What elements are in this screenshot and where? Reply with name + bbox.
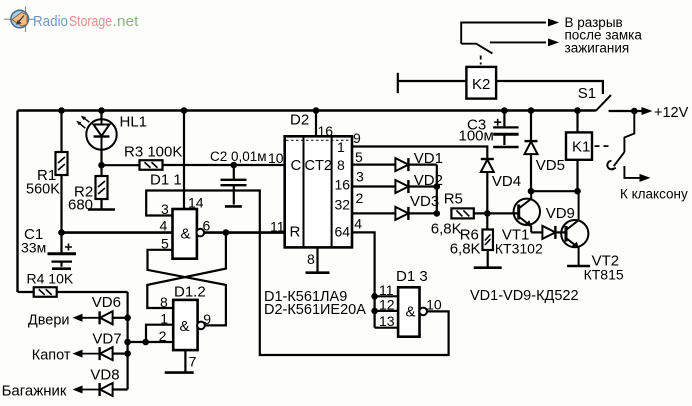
dashed link K1 to contact (595, 145, 612, 147)
arrow to ignition break 2 (548, 38, 559, 46)
junction rail R1 (58, 107, 65, 114)
svg-text:9: 9 (203, 311, 211, 327)
svg-text:C: C (291, 157, 302, 174)
svg-text:VD9: VD9 (546, 205, 575, 222)
svg-text:D2: D2 (290, 112, 309, 129)
svg-text:13: 13 (379, 313, 395, 329)
junction VD7 bus (124, 350, 131, 357)
svg-text:100м: 100м (459, 128, 494, 145)
svg-text:VD4: VD4 (492, 173, 521, 190)
svg-text:D1 1: D1 1 (150, 172, 182, 189)
wire K2 contact to ignition (490, 41, 546, 43)
junction D1.1 output cross-couple (223, 229, 230, 236)
junction rail D1.1 pin14 (181, 107, 188, 114)
wire VD5 to relay node (530, 154, 532, 191)
wire left supply bus (16, 111, 18, 293)
dashed link K2 to contact (480, 56, 482, 65)
wire VD8 to bus (113, 388, 128, 390)
relay K2 coil (466, 67, 496, 99)
contact blade of K2 (461, 44, 492, 54)
wire K2 left lead (398, 80, 467, 82)
diode VD6 (100, 311, 113, 324)
diode VD7 (100, 347, 113, 360)
wire rail to HL1 (100, 111, 102, 121)
capacitor C1 (48, 254, 77, 267)
svg-text:6: 6 (203, 218, 211, 234)
arrow to Двери (73, 314, 83, 322)
junction C1 node (58, 229, 65, 236)
svg-text:КТ815: КТ815 (584, 267, 624, 283)
junction HL1 R2 R3 (98, 162, 105, 169)
wire R3 to D2 C input (163, 164, 285, 166)
capacitor C3 (493, 111, 518, 146)
wire R2 to ground (100, 199, 102, 210)
svg-text:зажигания: зажигания (565, 40, 630, 55)
diode VD9 (542, 226, 555, 239)
wire base node to R6 (486, 213, 488, 229)
svg-text:VD6: VD6 (92, 294, 121, 311)
svg-text:S1: S1 (578, 85, 596, 102)
junction rail VD5 (528, 107, 535, 114)
wire K1 to relay node (576, 160, 578, 191)
svg-text:+12V: +12V (654, 105, 689, 121)
wire D2 pin 9 to VD4 (352, 147, 487, 160)
svg-text:HL1: HL1 (120, 114, 148, 131)
svg-text:33м: 33м (21, 240, 46, 256)
junction D1.3 pin 11 (371, 293, 378, 300)
svg-text:6,8K: 6,8K (450, 241, 481, 258)
wire stub D1.3 pin 12 (375, 310, 399, 312)
svg-text:8: 8 (307, 251, 315, 267)
wire rail to D2 pin 16 (315, 111, 317, 137)
relay K1 coil (566, 132, 592, 159)
wire VD1 to collect line (408, 164, 436, 166)
svg-text:11: 11 (379, 282, 394, 298)
wire diode collect line (436, 165, 438, 214)
svg-text:Storage: Storage (69, 13, 112, 30)
svg-text:&: & (180, 318, 190, 335)
svg-text:VD1: VD1 (414, 150, 443, 167)
diode VD3 (395, 207, 408, 220)
svg-text:CT2: CT2 (305, 158, 332, 174)
wire D2 pin 4 to D1.3 inputs (352, 232, 375, 327)
ground below C3 (493, 146, 518, 149)
wire rail to VD5 (530, 111, 532, 142)
svg-text:R4 10K: R4 10K (27, 271, 74, 287)
wire VT1 emitter to VD9 (531, 231, 542, 233)
ground below D2 (306, 271, 330, 274)
wire +12V rail left of S1 (18, 109, 596, 112)
wire D2 pin 8 to ground (316, 247, 318, 272)
junction D1.3 pin 12 (371, 308, 378, 315)
wire D1.2 pin 7 to ground (184, 350, 186, 373)
LED HL1 (76, 116, 116, 150)
wire R5 to base node (474, 212, 519, 214)
junction pins 1-2 of D1.2 (142, 339, 149, 346)
diode VD5 (525, 141, 538, 154)
svg-text:Капот: Капот (32, 348, 71, 364)
junction VD5 VT1 collector (528, 188, 535, 195)
svg-text:R5: R5 (444, 191, 463, 208)
wire VD7 to bus (113, 353, 128, 355)
svg-text:R: R (290, 224, 301, 241)
op gate D1.3 К561ЛА9 (398, 287, 419, 336)
wire relay node (531, 190, 579, 192)
ground below VT2 (567, 265, 590, 268)
svg-text:D2-К561ИЕ20А: D2-К561ИЕ20А (264, 302, 366, 318)
svg-text:Двери: Двери (28, 312, 70, 328)
counter D2 К561ИЕ20А box (285, 136, 352, 247)
svg-text:64: 64 (335, 224, 351, 240)
wire D1.1 pin3 loop to D1.3 output (146, 191, 448, 356)
junction C2 top (231, 162, 238, 169)
svg-text:4: 4 (354, 216, 362, 232)
wire VD6 to bus (113, 317, 128, 319)
diode VD1 (395, 158, 408, 171)
svg-text:10: 10 (268, 150, 284, 166)
junction rail C3 (501, 107, 508, 114)
junction VD2 collect (434, 183, 441, 190)
wire D1.2 pin 1 jumper (146, 325, 173, 342)
wire cross-couple D1.2 out to D1.1 pin 5 (148, 250, 226, 326)
svg-text:5: 5 (355, 149, 363, 165)
arrow to +12V (642, 107, 653, 115)
wire rail to D1.1 pin 14 (183, 111, 185, 210)
svg-text:16: 16 (335, 177, 351, 193)
svg-text:K2: K2 (472, 76, 490, 93)
svg-text:VD5: VD5 (536, 157, 565, 174)
capacitor C2 (221, 165, 247, 205)
resistor R1 (56, 152, 68, 175)
wire R6 to ground (487, 250, 489, 268)
svg-text:7: 7 (189, 354, 197, 370)
svg-text:8: 8 (160, 294, 168, 310)
svg-text:VD8: VD8 (90, 367, 119, 384)
svg-text:R3 100K: R3 100K (124, 144, 182, 161)
op gate D1.1 К561ЛА9 (173, 209, 197, 259)
wire VD4 to base node (486, 172, 488, 213)
svg-text:K1: K1 (572, 139, 590, 156)
svg-text:4: 4 (160, 218, 168, 234)
wire VD6 to arrow (77, 317, 100, 319)
ground below R6 (474, 266, 502, 269)
junction rail D2 pin16 (313, 107, 320, 114)
wire sensor bus to D1.2 pin 2 (128, 341, 174, 343)
svg-text:8: 8 (337, 157, 345, 173)
svg-text:1: 1 (337, 139, 345, 155)
svg-text:VD3: VD3 (410, 193, 439, 210)
resistor R6 (482, 230, 493, 251)
junction VD6 bus (124, 315, 131, 322)
junction rail K1 (574, 107, 581, 114)
svg-text:Багажник: Багажник (2, 383, 67, 400)
wire VD2 to collect line (408, 185, 436, 187)
contact of K1 to horn (607, 111, 646, 178)
junction pin2 branch bus (124, 339, 131, 346)
wire VD8 to arrow (77, 389, 100, 391)
terminal bar left of K2 (397, 73, 399, 93)
wire stub D1.3 pin 13 (375, 327, 399, 329)
junction K1 VT2 collector (574, 188, 581, 195)
wire VD7 to arrow (77, 353, 100, 355)
ground below D1.2 (165, 371, 194, 374)
ground below C2 (225, 205, 242, 208)
transistor VT2 КТ815 (561, 191, 588, 266)
junction +12V contact (631, 108, 638, 115)
resistor R2 (96, 176, 108, 199)
wire VD9 to VT2 base (556, 231, 566, 233)
svg-text:&: & (181, 226, 191, 243)
svg-text:9: 9 (353, 130, 361, 146)
transistor VT1 КТ3102 (514, 191, 540, 232)
polarity plus of C3 (494, 119, 501, 126)
svg-text:D1 3: D1 3 (396, 268, 428, 285)
arrow to horn (640, 174, 651, 182)
wire stub D1.3 pin 11 (375, 295, 399, 297)
junction rail HL1 (98, 107, 105, 114)
svg-text:D1.2: D1.2 (174, 284, 206, 301)
switch S1 blade (596, 95, 611, 111)
svg-text:&: & (406, 304, 416, 321)
svg-text:.net: .net (113, 13, 140, 30)
arrow to Багажник (73, 386, 83, 394)
svg-text:VD7: VD7 (92, 331, 121, 348)
wire K2 contact common (461, 23, 546, 44)
diode VD2 (395, 180, 408, 193)
wire cross-couple D1.1 out to D1.2 pin 8 (147, 233, 226, 308)
arrow to ignition break 1 (548, 19, 559, 27)
output bubble of D1.2 (197, 322, 205, 330)
svg-text:2: 2 (356, 190, 364, 206)
op gate D1.2 К561ЛА9 (173, 300, 197, 350)
logo RadioStorage.net icon (4, 7, 36, 33)
diode VD8 (100, 383, 113, 396)
svg-text:11: 11 (270, 219, 285, 235)
svg-text:32: 32 (335, 197, 351, 213)
ground below C1 (52, 267, 71, 270)
wire output 32 to VD3 (352, 212, 395, 214)
wire R4 to sensor bus (57, 291, 128, 293)
wire VD3 to collect line (408, 212, 436, 214)
svg-text:3: 3 (356, 169, 364, 185)
wire HL1 node to R3 (102, 164, 140, 166)
svg-text:КТ3102: КТ3102 (495, 241, 543, 257)
svg-text:10: 10 (426, 297, 442, 313)
resistor R3 (140, 160, 163, 170)
svg-text:Radio: Radio (33, 13, 68, 30)
output bubble of D1.1 (197, 229, 205, 237)
ground below R2 (88, 208, 115, 211)
wire HL1 to R2 node (100, 150, 102, 176)
wire sensor bus vertical (126, 292, 128, 390)
resistor R4 (34, 287, 57, 297)
svg-text:К клаксону: К клаксону (620, 187, 688, 202)
polarity plus of C1 (65, 244, 72, 251)
svg-text:C2 0,01м: C2 0,01м (210, 149, 267, 164)
svg-text:680: 680 (68, 197, 93, 214)
wire C1 node to D1.1 pin 4 (62, 231, 173, 234)
wire output 16 to VD2 (352, 185, 395, 187)
wire rail to R1 (60, 111, 62, 153)
svg-text:560K: 560K (26, 182, 60, 198)
wire K2 right lead to S1 (496, 81, 603, 94)
wire left bus to R4 (18, 291, 34, 293)
junction base node (484, 210, 491, 217)
junction VD3 R5 (434, 210, 441, 217)
diode VD4 (481, 159, 494, 172)
svg-text:12: 12 (379, 297, 395, 313)
wire output 8 to VD1 (352, 164, 395, 166)
resistor R5 (451, 208, 473, 218)
svg-text:6,8K: 6,8K (431, 221, 462, 238)
wire D1.1 output to D2 R input (204, 231, 285, 234)
wire R1 to C1 node (60, 175, 62, 254)
svg-text:VD1-VD9-КД522: VD1-VD9-КД522 (470, 288, 579, 304)
wire rail to K1 (576, 111, 578, 133)
arrow to Капот (73, 350, 83, 358)
output bubble of D1.3 (419, 308, 427, 316)
wire +12V rail right of S1 to arrow (609, 110, 648, 112)
